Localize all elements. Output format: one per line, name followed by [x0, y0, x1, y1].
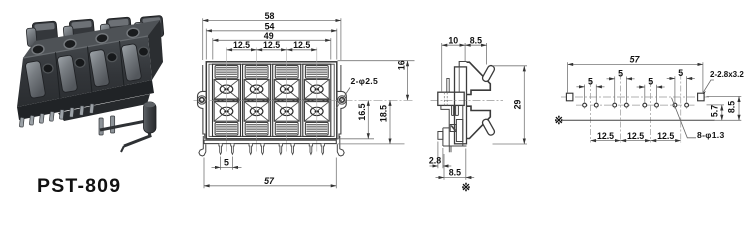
svg-text:※: ※ [461, 182, 470, 194]
dimension 5 (pins) [212, 157, 242, 170]
dimension 5 pair 4 [667, 76, 695, 101]
product photo: front face [17, 36, 152, 107]
side bracket slab (ear side) [438, 92, 464, 105]
svg-text:12.5: 12.5 [233, 40, 250, 50]
terminal column 3 [273, 48, 301, 152]
right bracket hook [337, 136, 344, 156]
svg-text:54: 54 [265, 21, 275, 31]
side view upper small pin [447, 78, 449, 92]
leader 2-phi2.5 [336, 88, 350, 109]
dimension 5 pair 3 [637, 85, 665, 102]
reference baseline [563, 119, 715, 121]
side view bottom pin [449, 146, 451, 152]
svg-text:16: 16 [396, 60, 406, 70]
product photo: top face [23, 20, 160, 58]
dimensions 12.5 x3 [227, 49, 317, 51]
top button lever [481, 64, 495, 82]
product photo: top face wire holes [31, 27, 139, 55]
dimensions 12.5 x3 (footprint) [590, 140, 680, 142]
front view body outer rect [206, 62, 336, 139]
dimension 8.5 (side bottom) [436, 149, 475, 180]
svg-text:12.5: 12.5 [263, 40, 280, 50]
dimension 57 (bottom) [204, 158, 336, 189]
svg-text:16.5: 16.5 [357, 103, 367, 120]
pin holes (8) [583, 102, 587, 109]
svg-text:58: 58 [265, 11, 275, 21]
svg-text:12.5: 12.5 [293, 40, 310, 50]
left ear hole [198, 96, 206, 104]
product photo: mounting frame bottom right [100, 121, 150, 152]
left mounting slot square [566, 93, 573, 101]
svg-text:12.5: 12.5 [627, 131, 644, 141]
svg-text:8.5: 8.5 [727, 101, 737, 113]
right body skirt line [340, 65, 342, 91]
top button profile [467, 62, 491, 94]
terminal column 2 [243, 48, 271, 152]
horizontal centerline [194, 99, 415, 101]
product photo: front row separations [56, 41, 125, 99]
product photo: front row holes [43, 47, 149, 73]
terminal column 4 [303, 48, 331, 152]
dimension 49 [213, 38, 331, 59]
dimension 18.5 (vertical) [389, 100, 391, 144]
svg-text:5: 5 [618, 68, 623, 78]
svg-text:29: 29 [513, 100, 523, 110]
svg-text:5: 5 [588, 76, 593, 86]
pair centerlines (vertical) [590, 74, 680, 143]
leader 8-phi1.3 [672, 98, 697, 138]
dimension 29 (side right) [493, 66, 528, 144]
product photo: right end face [148, 20, 163, 80]
product photo: top row rocker buttons [26, 15, 164, 46]
svg-text:2-φ2.5: 2-φ2.5 [351, 76, 379, 86]
left body skirt line [202, 65, 204, 91]
svg-text:8.5: 8.5 [449, 167, 461, 177]
dimension 58 [203, 18, 341, 60]
right mounting slot square [698, 93, 705, 101]
dimension 16 (vertical) [407, 61, 409, 101]
svg-text:5: 5 [648, 77, 653, 87]
dimension 54 [206, 29, 336, 60]
product photo: right cylinder post [144, 102, 157, 133]
dimension 57 (footprint) [568, 62, 703, 92]
front view inner frame [209, 64, 334, 136]
product photo: front row rockers [25, 44, 142, 99]
dimension 5.7 (footprint right) [707, 96, 742, 120]
svg-text:5: 5 [678, 68, 683, 78]
pins row (8 pins) [219, 144, 222, 155]
side view centerline [431, 99, 504, 101]
bottom button lever [481, 118, 495, 136]
product photo: pins under base [19, 104, 114, 135]
dimension 8.5 (side top) [465, 43, 487, 65]
pin hole row centerline [576, 104, 695, 106]
svg-text:57: 57 [630, 55, 641, 65]
svg-text:5: 5 [224, 157, 229, 167]
dimension 2.8 (side bottom) [430, 142, 452, 169]
svg-text:5.7: 5.7 [709, 105, 719, 117]
svg-text:8-φ1.3: 8-φ1.3 [697, 130, 725, 140]
dimension 5 pair 2 [607, 77, 635, 102]
side view main wall [455, 67, 467, 144]
side view top stub [459, 62, 466, 67]
left mounting ear tab [198, 91, 207, 138]
lower bracket structure [438, 105, 467, 146]
side view wall inner line [458, 67, 460, 92]
svg-text:12.5: 12.5 [597, 131, 614, 141]
svg-text:2-2.8x3.2: 2-2.8x3.2 [710, 70, 744, 79]
svg-text:10: 10 [448, 36, 458, 46]
dimension 16.5 (vertical) [367, 100, 369, 139]
svg-text:57: 57 [264, 176, 275, 186]
right ear hole [338, 96, 346, 104]
product photo: base band [17, 80, 154, 120]
terminal column 1 [213, 48, 241, 152]
svg-text:8.5: 8.5 [470, 36, 482, 46]
svg-text:※: ※ [554, 115, 563, 127]
svg-text:12.5: 12.5 [657, 131, 674, 141]
product photo: top face front edge highlight [23, 36, 148, 58]
svg-text:18.5: 18.5 [379, 105, 389, 122]
right side extension lines [338, 61, 415, 144]
mounting slot centerline [561, 96, 710, 98]
leader 2-2.8x3.2 [703, 80, 714, 93]
right mounting ear tab [337, 91, 347, 138]
left bracket hook [199, 136, 206, 156]
slab hidden hole lines [444, 92, 447, 105]
svg-text:2.8: 2.8 [429, 156, 441, 166]
bottom button profile [467, 106, 491, 138]
product name label PST-809 [37, 175, 121, 198]
base plate [204, 140, 336, 143]
dimension 5 pair 1 [576, 85, 604, 102]
dimension 10 (side top) [442, 43, 465, 92]
